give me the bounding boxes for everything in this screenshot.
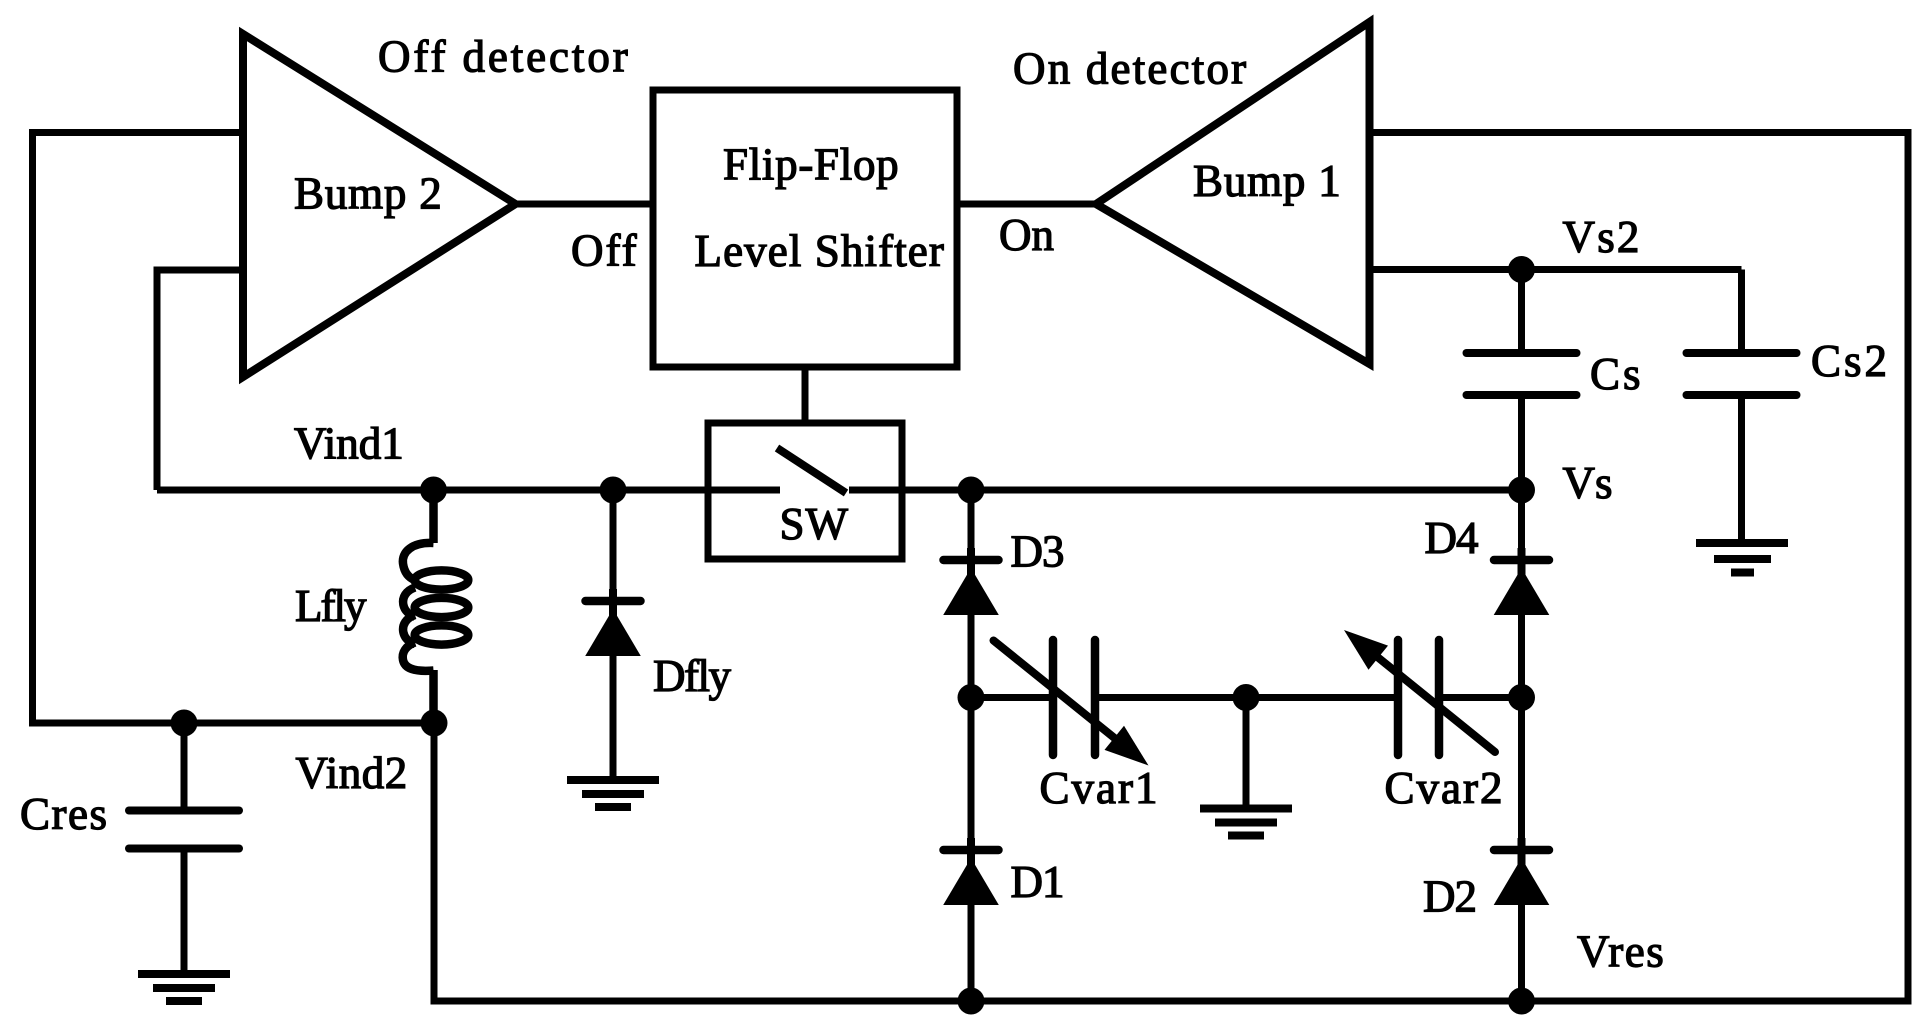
svg-text:Vs2: Vs2: [1563, 212, 1642, 262]
junction Cres tap: [171, 710, 198, 737]
ground (Cs2): [1696, 543, 1788, 573]
switch SW box: [708, 423, 902, 559]
variable capacitor Cvar2: [1398, 640, 1439, 755]
node A (D3/D1/Cvar1): [958, 684, 985, 711]
svg-text:Cs: Cs: [1590, 349, 1644, 399]
svg-text:Cs2: Cs2: [1811, 336, 1890, 386]
wire: Vind2 to Cres: [181, 723, 188, 808]
wire: Bump1 top output, right rail, bottom Vres rail: [434, 133, 1908, 1002]
svg-text:D2: D2: [1423, 872, 1476, 922]
diode D4: [1494, 548, 1550, 615]
junction D1/Vres rail: [958, 988, 985, 1015]
wire: Vs rail to D3: [968, 490, 975, 558]
wire: Vs node to D4: [1518, 490, 1525, 558]
svg-text:On: On: [999, 210, 1054, 260]
svg-text:Vres: Vres: [1577, 927, 1665, 977]
node B (D4/D2/Cvar2): [1508, 684, 1535, 711]
capacitor Cs: [1467, 353, 1577, 395]
node Vs: [1508, 477, 1535, 504]
svg-text:Off detector: Off detector: [378, 32, 631, 82]
wire: Flip-Flop to SW control: [802, 367, 809, 423]
wire: Dfly anode to ground: [610, 656, 617, 778]
inductor Lfly: [403, 490, 469, 723]
variable capacitor Cvar1: [1053, 640, 1095, 755]
wire: Cs2 to ground: [1738, 393, 1745, 541]
wire: Cs to Vs node: [1518, 393, 1525, 490]
svg-text:D4: D4: [1425, 513, 1478, 563]
wire: mid node to ground: [1243, 698, 1250, 807]
svg-text:Level Shifter: Level Shifter: [695, 226, 945, 276]
svg-text:On detector: On detector: [1013, 44, 1248, 94]
svg-text:Lfly: Lfly: [295, 581, 367, 631]
svg-text:Bump 2: Bump 2: [294, 169, 443, 219]
node Vind2: [421, 710, 448, 737]
wire: node B to D2: [1518, 698, 1525, 849]
wire: Bump1 lower output to Vs2/Cs2: [1370, 266, 1742, 273]
node mid ground: [1233, 684, 1260, 711]
Cvar2 arrow: [1344, 630, 1495, 752]
diode Dfly: [585, 589, 641, 656]
wire: node A to Cvar1: [971, 694, 1049, 701]
svg-text:Vind1: Vind1: [294, 419, 404, 469]
amplifier Bump 2 (Off detector): [243, 34, 516, 377]
junction Dfly tap: [600, 477, 627, 504]
svg-text:Cvar1: Cvar1: [1040, 763, 1160, 813]
ground (Cres): [138, 974, 230, 1001]
node Vind1 junction: [420, 477, 447, 504]
node Vres: [1508, 988, 1535, 1015]
wire: Bump2 output to Flip-Flop: [515, 201, 653, 208]
svg-text:Cres: Cres: [20, 789, 109, 839]
svg-text:D1: D1: [1011, 857, 1064, 907]
diode D3: [943, 548, 999, 615]
junction D3 tap: [958, 477, 985, 504]
wire: Vind1 rail into SW: [157, 487, 780, 494]
ground (Dfly): [567, 780, 659, 807]
node Vs2: [1508, 256, 1535, 283]
svg-text:SW: SW: [780, 499, 850, 549]
diode D2: [1494, 838, 1550, 905]
Cvar1 arrow: [994, 641, 1149, 766]
wire: Vind1 to Dfly: [610, 490, 617, 597]
wire: Cvar2 to node B: [1443, 694, 1522, 701]
wire: Cres to ground: [181, 850, 188, 972]
wire: SW output rail to Vs: [849, 487, 1522, 494]
wire: mid node to Cvar2: [1246, 694, 1394, 701]
capacitor Cs2: [1687, 353, 1797, 395]
svg-text:Flip-Flop: Flip-Flop: [723, 140, 899, 190]
svg-text:Dfly: Dfly: [653, 651, 731, 701]
switch SW blade: [777, 448, 846, 493]
wire: D3 anode to node A: [968, 613, 975, 698]
wire: outer left loop (Bump2 top input to Vind2 rail): [33, 133, 435, 724]
wire: Vs2 node to Cs: [1518, 270, 1525, 356]
wire: D1 anode to Vres rail: [968, 903, 975, 1001]
capacitor Cres: [129, 811, 239, 849]
diode D1: [943, 838, 999, 905]
wire: Flip-Flop to Bump1 (On): [957, 201, 1096, 208]
svg-text:Vs: Vs: [1563, 458, 1613, 508]
wire: Vs2 rail corner down to Cs2: [1738, 270, 1745, 356]
svg-text:Off: Off: [571, 226, 639, 276]
block U1 Flip-Flop Level Shifter: [653, 90, 957, 367]
wire: Cvar1 to mid ground node: [1099, 694, 1246, 701]
svg-text:Bump 1: Bump 1: [1193, 156, 1342, 206]
wire: D4 anode to node B: [1518, 613, 1525, 698]
amplifier Bump 1 (On detector): [1096, 22, 1370, 364]
wire: D2 anode to Vres rail: [1518, 903, 1525, 1001]
wire: Bump2 lower input down to Vind1 rail: [157, 270, 243, 490]
svg-text:Vind2: Vind2: [296, 748, 408, 798]
ground (between Cvar1 and Cvar2): [1200, 809, 1292, 836]
svg-text:Cvar2: Cvar2: [1385, 763, 1505, 813]
svg-text:D3: D3: [1011, 527, 1064, 577]
wire: node A to D1: [968, 698, 975, 849]
